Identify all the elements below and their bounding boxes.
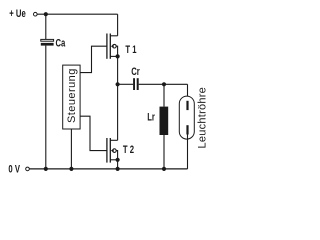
capacitor Cr xyxy=(133,78,139,90)
svg-text:T 2: T 2 xyxy=(123,144,134,157)
wire mid vertical T1 source to T2 drain xyxy=(117,56,119,140)
node Steuerung to 0V xyxy=(69,167,73,171)
transistor T2 n-MOSFET xyxy=(107,138,120,169)
node mid junction to Cr xyxy=(116,82,120,86)
wire T1 drain drop xyxy=(117,14,119,36)
wire lamp bottom drop xyxy=(187,135,189,169)
wire lamp top drop xyxy=(187,84,189,101)
wire bottom rail 0V xyxy=(29,168,187,170)
node T2 source to 0V xyxy=(116,167,120,171)
svg-text:T 1: T 1 xyxy=(125,44,137,57)
svg-text:0 V: 0 V xyxy=(8,163,20,176)
wire Steuerung to 0V xyxy=(70,129,72,169)
terminal 0V xyxy=(26,167,30,171)
node left vertical to 0V xyxy=(44,167,48,171)
wire left vertical to 0V xyxy=(45,46,47,169)
inductor Lr xyxy=(160,107,169,135)
node A junction Ue/Ca xyxy=(44,12,48,16)
wire Lr top drop xyxy=(163,84,165,106)
transistor T1 n-MOSFET xyxy=(107,34,120,59)
capacitor Ca xyxy=(41,39,54,45)
svg-text:Leuchtröhre: Leuchtröhre xyxy=(197,87,209,148)
wire gate T2 from Steuerung xyxy=(80,116,107,150)
control box Steuerung xyxy=(63,65,80,129)
node Lr/0V junction xyxy=(162,167,166,171)
svg-text:+ Ue: + Ue xyxy=(9,8,25,21)
svg-text:Cr: Cr xyxy=(131,66,140,79)
node Cr/Lr junction xyxy=(162,82,166,86)
svg-text:Ca: Ca xyxy=(56,37,66,50)
wire Lr bottom drop xyxy=(163,135,165,169)
wire Cr to lamp node xyxy=(139,83,188,85)
terminal +Ue xyxy=(34,12,38,16)
wire mid to Cr xyxy=(118,83,134,85)
wire Ca top lead xyxy=(45,14,47,39)
lamp Leuchtroehre tube xyxy=(179,96,194,139)
svg-text:Lr: Lr xyxy=(147,111,155,124)
wire top rail xyxy=(37,13,117,15)
wire gate T1 from Steuerung xyxy=(80,46,107,72)
svg-text:Steuerung: Steuerung xyxy=(66,68,78,123)
